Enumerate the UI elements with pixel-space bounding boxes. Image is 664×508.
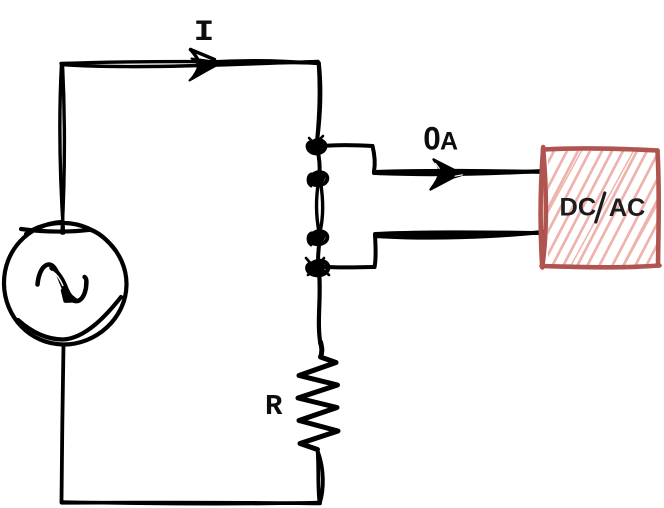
wire resistor to bottom (318, 450, 323, 503)
svg-text:R: R (265, 390, 283, 423)
wire bottom output stub (318, 232, 543, 268)
svg-text:A: A (440, 128, 458, 156)
svg-text:AC: AC (609, 194, 646, 222)
wire J4 down to resistor (319, 272, 321, 344)
box border (541, 147, 660, 268)
hachure fill (491, 149, 664, 272)
AC source V1 circle (4, 222, 127, 345)
wire J2-J3 doubled (316, 182, 322, 232)
sine wave inside source (38, 264, 87, 301)
node junction J1 (308, 136, 326, 153)
node junction J4 (306, 258, 329, 275)
wire top-left vertical (60, 64, 64, 233)
box right edge (658, 151, 659, 266)
wire right vertical upper (317, 63, 321, 139)
wire source bottom stub (62, 345, 64, 502)
node junction J3 (308, 231, 327, 245)
wire top output stub (317, 145, 543, 174)
svg-text:DC: DC (560, 194, 597, 222)
wire bottom horizontal (62, 502, 321, 504)
arrow for current I (190, 50, 222, 81)
svg-text:I: I (194, 15, 215, 49)
box bottom edge (542, 266, 660, 268)
box top edge (543, 148, 658, 150)
resistor R (298, 342, 338, 450)
wire J1-J2 (318, 150, 320, 173)
box left edge doubled (541, 147, 544, 268)
arrow 0A (431, 160, 464, 190)
svg-text:0: 0 (423, 121, 441, 157)
wire top horizontal (61, 61, 319, 67)
label 0A (423, 121, 458, 157)
node junction J2 (308, 172, 327, 186)
inverter DC/AC box (491, 147, 664, 272)
wire J3-J4 (318, 241, 320, 262)
